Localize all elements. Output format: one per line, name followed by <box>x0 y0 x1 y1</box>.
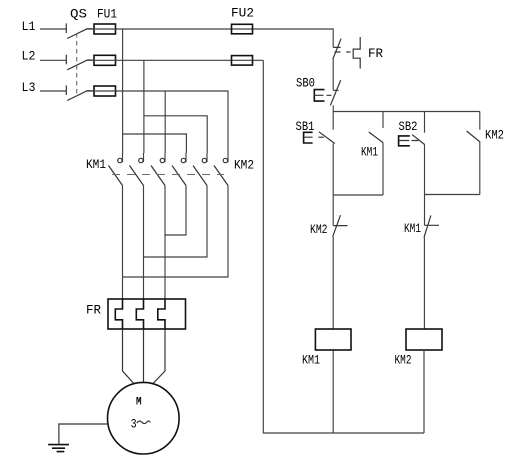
node L2 <box>22 49 36 64</box>
svg-text:KM2: KM2 <box>310 222 328 237</box>
wire KM2 contact 5 crossover to V <box>144 186 208 258</box>
wire L2 drop to KM contacts <box>144 60 207 153</box>
wire L1 row FU1 to FU2 <box>87 29 334 47</box>
contactor KM1 auxiliary NO contact <box>361 112 383 160</box>
wire left rejoin <box>333 194 383 196</box>
wire L2 to control circuit left rail <box>263 60 424 433</box>
thermal relay FR NC contact <box>333 37 383 69</box>
wire L3 feed <box>40 90 66 92</box>
wire FR to motor U <box>123 329 134 384</box>
contactor KM1 main contacts <box>86 153 165 186</box>
wire L3 drop to KM contact 3 <box>164 91 166 153</box>
svg-text:FU1: FU1 <box>97 7 117 22</box>
svg-text:KM2: KM2 <box>485 128 504 143</box>
wire control top rail <box>333 111 480 113</box>
contactor KM2 NC interlock contact <box>310 215 348 237</box>
wire SB2 lower <box>424 145 426 195</box>
wire FR to SB0 <box>332 59 334 90</box>
wire KM1 aux lower <box>382 143 384 195</box>
wire L2 feed <box>40 59 66 61</box>
wire motor to ground <box>59 424 108 444</box>
svg-text:KM1: KM1 <box>302 352 320 367</box>
svg-text:3: 3 <box>131 417 137 432</box>
svg-text:L3: L3 <box>22 80 36 95</box>
svg-text:L1: L1 <box>22 19 36 34</box>
wire KM2 NC to KM1 coil <box>332 237 334 329</box>
coil KM1 <box>302 329 351 367</box>
node L1 <box>22 19 36 34</box>
svg-text:KM1: KM1 <box>404 221 421 236</box>
wire motor phase V <box>143 186 145 300</box>
wire SB2 node down <box>424 195 426 226</box>
KM main contacts mechanical linkage <box>112 174 224 176</box>
svg-text:FR: FR <box>86 302 101 317</box>
wire motor phase U <box>122 186 124 300</box>
wire L1 feed <box>40 28 66 30</box>
fuse FU1 <box>94 7 117 96</box>
fuse FU2 <box>231 5 254 65</box>
contactor KM2 auxiliary NO contact <box>467 112 504 143</box>
wire KM1 NC to KM2 coil <box>423 237 425 329</box>
wire L2 row FU1 to FU2 <box>87 59 264 61</box>
wire SB0 to rail node <box>332 105 334 111</box>
knife switch QS <box>66 7 94 101</box>
svg-text:L2: L2 <box>22 49 36 64</box>
contactor KM1 NC interlock contact <box>404 215 439 237</box>
wire SB1 node down <box>332 195 334 226</box>
svg-text:QS: QS <box>70 7 87 22</box>
start button SB1 <box>296 112 335 144</box>
svg-text:KM2: KM2 <box>395 352 412 367</box>
svg-text:KM2: KM2 <box>234 157 254 172</box>
wire FR to motor W <box>153 329 165 384</box>
start button SB2 <box>399 112 425 146</box>
svg-text:M: M <box>136 397 142 409</box>
node L3 <box>22 80 36 95</box>
svg-text:FU2: FU2 <box>231 5 254 20</box>
motor M 3-phase <box>108 382 180 454</box>
wire KM2 contact 4 crossover to W <box>165 186 186 236</box>
thermal relay FR heater elements <box>86 299 186 329</box>
wire SB1 lower <box>332 144 334 196</box>
svg-text:KM1: KM1 <box>361 145 378 160</box>
contactor KM2 main contacts <box>172 153 254 186</box>
wire KM2 contact 6 crossover to U <box>123 186 229 278</box>
svg-text:SB0: SB0 <box>296 75 315 90</box>
wire KM2 coil bottom <box>423 350 425 433</box>
ground <box>48 445 69 452</box>
wire right rejoin <box>425 194 480 196</box>
wire L1 drop to KM contacts <box>123 29 187 153</box>
wire FR to motor V <box>143 329 145 383</box>
svg-text:SB2: SB2 <box>399 119 418 134</box>
svg-text:FR: FR <box>368 46 383 61</box>
svg-text:KM1: KM1 <box>86 157 106 172</box>
coil KM2 <box>395 329 443 367</box>
wire L3 row <box>87 91 229 153</box>
stop button SB0 <box>296 75 341 105</box>
wire motor phase W <box>164 186 166 300</box>
wire KM2 aux lower <box>479 142 481 194</box>
